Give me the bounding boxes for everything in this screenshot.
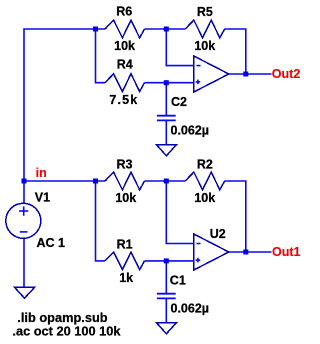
svg-text:R5: R5: [197, 5, 213, 19]
svg-text:Out2: Out2: [272, 67, 301, 81]
svg-text:in: in: [36, 166, 47, 180]
wire C2 top lead: [165, 83, 167, 116]
wire R2 right lead to corner down to output node: [225, 181, 246, 252]
resistor R6: [105, 20, 145, 38]
junction op-amp1 output: [243, 72, 248, 77]
wire node B down to inverting input: [166, 29, 193, 66]
wire node A down to R4: [96, 29, 106, 83]
svg-text:10k: 10k: [194, 39, 215, 53]
svg-text:C2: C2: [171, 95, 187, 109]
svg-text:7.5k: 7.5k: [109, 93, 138, 107]
svg-text:R3: R3: [117, 158, 133, 172]
ground below V1: [14, 287, 34, 298]
svg-text:V1: V1: [35, 190, 50, 204]
svg-text:10k: 10k: [115, 191, 136, 205]
junction in node: [22, 179, 27, 184]
resistor R2: [185, 172, 225, 190]
ground below C2: [156, 145, 176, 156]
svg-text:10k: 10k: [194, 191, 215, 205]
junction node C (R3 left): [93, 179, 98, 184]
wire R1 to U2 non-inverting input: [145, 260, 194, 262]
wire R5 right lead to corner down to output node: [225, 29, 246, 74]
wire node C down to R1: [96, 181, 106, 261]
wire R6 to R5 node: [145, 28, 186, 30]
op-amp 1 (top): [194, 56, 229, 92]
junction R4 / + input / C2: [164, 80, 169, 85]
wire C2 bottom lead to ground: [165, 120, 167, 144]
junction U2 output: [243, 250, 248, 255]
resistor R4: [105, 74, 145, 92]
junction R1 / + input / C1: [164, 258, 169, 263]
capacitor C2: [157, 116, 176, 121]
wire C1 bottom lead to ground: [165, 298, 167, 322]
wire V1 bottom to ground: [23, 238, 25, 287]
capacitor C1: [157, 294, 176, 299]
op-amp U2 (bottom): [194, 234, 229, 270]
wire R3 to R2 node: [145, 180, 186, 182]
svg-text:C1: C1: [170, 274, 186, 288]
svg-text:0.062µ: 0.062µ: [171, 301, 209, 315]
junction node A (R6 left): [93, 27, 98, 32]
svg-text:R2: R2: [197, 158, 213, 172]
wire in node down to V1: [23, 181, 25, 203]
svg-text:10k: 10k: [114, 39, 135, 53]
svg-text:R4: R4: [117, 58, 133, 72]
wire R4 to non-inverting input: [145, 82, 194, 84]
resistor R3: [105, 172, 145, 190]
voltage source V1: [6, 203, 41, 238]
wire node D down to U2 inverting input: [166, 181, 193, 244]
wire C1 top lead: [165, 261, 167, 294]
svg-text:.ac oct 20 100 10k: .ac oct 20 100 10k: [12, 324, 121, 339]
wire in node to R3: [24, 180, 105, 182]
wire U2 output to Out1: [229, 251, 272, 253]
svg-text:.lib opamp.sub: .lib opamp.sub: [17, 310, 107, 325]
svg-text:R6: R6: [116, 5, 132, 19]
svg-text:0.062µ: 0.062µ: [171, 123, 209, 137]
wire op-amp1 output to Out2: [229, 73, 272, 75]
svg-text:Out1: Out1: [272, 245, 301, 259]
ground below C1: [156, 323, 176, 334]
svg-text:R1: R1: [117, 238, 133, 252]
wire top-left from corner to R6: [24, 29, 105, 181]
resistor R5: [185, 20, 225, 38]
junction node D (R3/R2): [164, 179, 169, 184]
svg-text:AC 1: AC 1: [37, 236, 66, 250]
svg-text:1k: 1k: [119, 271, 133, 285]
resistor R1: [105, 252, 145, 270]
svg-text:U2: U2: [210, 227, 226, 241]
junction node B (R6/R5): [164, 27, 169, 32]
